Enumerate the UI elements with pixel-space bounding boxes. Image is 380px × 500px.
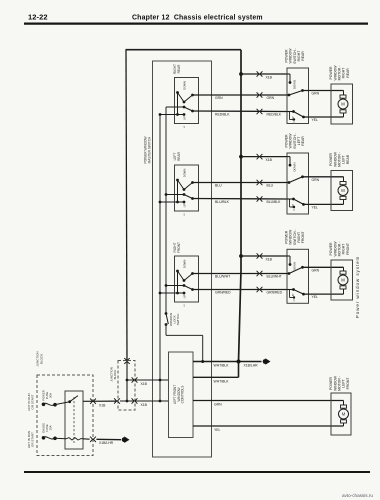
wire: row 2 up wire xyxy=(193,182,287,184)
header rule xyxy=(24,23,368,25)
wire: WHT/BLK to arrow xyxy=(193,361,262,363)
wire: jb2 vertical xyxy=(126,361,128,401)
svg-text:M: M xyxy=(341,102,345,107)
svg-text:X1B: X1B xyxy=(266,258,273,262)
power window motor row 2 xyxy=(331,171,353,211)
wire: row 1 down wire xyxy=(193,110,287,113)
wire: row 1 feed X1B xyxy=(239,72,243,76)
svg-text:X1B: X1B xyxy=(141,403,148,407)
wire: right power bus xyxy=(239,50,242,362)
svg-text:UP: UP xyxy=(183,203,187,207)
wire: X1B through jb2 lower xyxy=(114,398,117,403)
relay contact xyxy=(68,400,71,403)
svg-text:X1B: X1B xyxy=(266,158,273,162)
wire: row 3 feed X1B xyxy=(239,254,243,258)
svg-text:BLU/WHT: BLU/WHT xyxy=(267,274,282,278)
power window relay box xyxy=(65,391,83,449)
svg-text:X1B/LHR: X1B/LHR xyxy=(99,441,114,445)
wire: row 3 bus stub A xyxy=(160,292,184,294)
power window switch row 2 xyxy=(287,153,309,214)
wire: row 3 motor up xyxy=(303,266,344,268)
svg-text:RED/BLK: RED/BLK xyxy=(215,112,230,116)
wire: row 3 motor down xyxy=(304,293,344,295)
wire: row 1 bus stub A xyxy=(160,114,184,116)
left front window controls box xyxy=(169,352,194,438)
svg-text:30A: 30A xyxy=(49,393,53,398)
power window motor row 1 xyxy=(331,84,353,124)
svg-text:DOWN: DOWN xyxy=(182,169,186,178)
svg-text:BLU/BLK: BLU/BLK xyxy=(215,200,230,204)
wire: row 2 bus stub B xyxy=(166,194,184,196)
svg-text:GRN: GRN xyxy=(214,403,222,407)
svg-text:X1B: X1B xyxy=(266,76,273,80)
svg-text:Chapter 12 Chassis electrical: Chapter 12 Chassis electrical system xyxy=(132,15,263,22)
svg-text:UP: UP xyxy=(183,116,187,120)
svg-text:BLOCK: BLOCK xyxy=(39,354,43,364)
power window motor left front xyxy=(331,393,351,435)
wire: row 2 motor down xyxy=(304,203,344,205)
svg-text:BLU/BLK: BLU/BLK xyxy=(267,200,282,204)
wire: row 2 down wire xyxy=(193,198,287,201)
wire: row 1 motor up xyxy=(303,90,344,92)
svg-text:Power window system: Power window system xyxy=(355,256,360,319)
svg-text:UP: UP xyxy=(183,294,187,298)
power window motor row 3 xyxy=(331,260,353,300)
wire: row 3 down wire xyxy=(193,289,287,291)
master sub-switch row 1 (RIGHT REAR) xyxy=(175,78,199,124)
svg-text:OR START: OR START xyxy=(31,432,35,447)
wire: row 2 motor up xyxy=(303,176,344,178)
svg-text:DOWN: DOWN xyxy=(182,81,186,90)
svg-text:avto-chassis.ru: avto-chassis.ru xyxy=(342,493,373,498)
wire: WHT/BLK loop xyxy=(193,376,239,378)
svg-text:FRONT: FRONT xyxy=(346,377,350,390)
svg-text:X1B: X1B xyxy=(141,382,148,386)
svg-text:GRN/RED: GRN/RED xyxy=(267,290,283,294)
svg-text:BLU: BLU xyxy=(267,183,274,187)
wire: jb2 to controls X1B upper xyxy=(127,379,169,381)
master sub-switch row 2 (LEFT REAR) xyxy=(175,165,199,211)
svg-text:REAR: REAR xyxy=(346,68,350,78)
svg-text:YEL: YEL xyxy=(214,428,221,432)
wire: left feed drop to junction block xyxy=(126,50,127,361)
svg-text:GRN: GRN xyxy=(215,96,223,100)
wire: row 3 bus stub B xyxy=(166,285,184,287)
wire: relay out X1B xyxy=(83,400,117,402)
wire: row 1 motor down xyxy=(304,116,344,118)
svg-text:FRONT: FRONT xyxy=(177,242,181,253)
arrow continuation bottom left xyxy=(122,437,127,442)
svg-text:DOWN: DOWN xyxy=(293,163,297,172)
svg-text:M: M xyxy=(342,412,346,417)
svg-text:DOWN: DOWN xyxy=(293,262,297,271)
wire: GRN to left front motor xyxy=(193,400,344,402)
wire: row 1 bus stub B xyxy=(166,106,184,108)
svg-text:REAR: REAR xyxy=(177,64,181,74)
svg-text:FRONT: FRONT xyxy=(346,242,350,255)
wire: main feed top xyxy=(126,49,242,51)
wire: lock switch to controls xyxy=(166,334,203,336)
wire: master internal bus B xyxy=(165,107,167,314)
wire: cb1 to relay xyxy=(55,402,70,405)
svg-text:X1B: X1B xyxy=(99,404,106,408)
svg-text:M: M xyxy=(341,278,345,283)
svg-text:WHT/BLK: WHT/BLK xyxy=(214,364,230,368)
wire: row 2 bus stub A xyxy=(160,201,184,203)
footer rule xyxy=(24,471,370,473)
svg-text:DOWN: DOWN xyxy=(182,260,186,269)
circuit breaker 1 xyxy=(42,403,46,407)
svg-text:MASTER SWITCH: MASTER SWITCH xyxy=(148,136,152,163)
power window switch row 1 xyxy=(287,68,309,124)
master sub-switch row 3 (RIGHT FRONT) xyxy=(175,256,199,302)
wire: YEL to left front motor xyxy=(193,425,344,427)
svg-text:GRN: GRN xyxy=(312,92,320,96)
svg-text:M: M xyxy=(341,188,345,193)
svg-text:BLU: BLU xyxy=(215,183,222,187)
window lock switch xyxy=(165,312,168,315)
svg-text:15A: 15A xyxy=(48,425,52,430)
svg-text:YEL: YEL xyxy=(312,295,319,299)
wire: row 3 up wire xyxy=(193,273,287,275)
svg-text:GRN: GRN xyxy=(267,96,275,100)
svg-text:REAR: REAR xyxy=(301,136,305,146)
power window switch row 3 xyxy=(287,249,309,303)
connector jb2 top xyxy=(124,358,129,361)
svg-text:DOWN: DOWN xyxy=(293,80,297,89)
arrow continuation right xyxy=(263,359,268,364)
wire: row 1 up wire xyxy=(193,94,287,96)
svg-text:FRONT: FRONT xyxy=(301,230,305,243)
wire: master internal bus A xyxy=(159,115,161,402)
power window master switch box xyxy=(153,61,212,457)
svg-text:YEL: YEL xyxy=(312,118,319,122)
svg-text:GRN: GRN xyxy=(312,178,320,182)
svg-text:CONTROLS: CONTROLS xyxy=(181,386,185,404)
svg-text:WHT/BLK: WHT/BLK xyxy=(214,379,230,383)
svg-text:REAR: REAR xyxy=(177,151,181,161)
svg-text:GRN: GRN xyxy=(312,268,320,272)
wire: cb2 lower X1B/LHR xyxy=(55,437,66,440)
svg-text:X1B/LHR: X1B/LHR xyxy=(244,364,259,368)
svg-text:OR START: OR START xyxy=(31,394,35,409)
wire: row 2 feed X1B xyxy=(239,155,243,159)
svg-text:BLOCK: BLOCK xyxy=(113,370,117,380)
svg-text:UP: UP xyxy=(291,294,295,298)
svg-text:YEL: YEL xyxy=(312,205,319,209)
svg-text:RED/BLK: RED/BLK xyxy=(267,112,282,116)
junction block 1 dashed box xyxy=(37,375,93,456)
svg-text:UP: UP xyxy=(291,204,295,208)
circuit breaker 2 xyxy=(42,436,46,440)
svg-text:GRN/RED: GRN/RED xyxy=(215,290,231,294)
svg-text:SWITCH: SWITCH xyxy=(176,314,180,326)
svg-text:REAR: REAR xyxy=(346,154,350,164)
svg-text:12-22: 12-22 xyxy=(28,13,48,22)
svg-text:REAR: REAR xyxy=(301,51,305,61)
svg-text:UP: UP xyxy=(291,116,295,120)
svg-text:BLU/WHT: BLU/WHT xyxy=(215,274,230,278)
junction block 2 dashed box xyxy=(118,361,135,411)
